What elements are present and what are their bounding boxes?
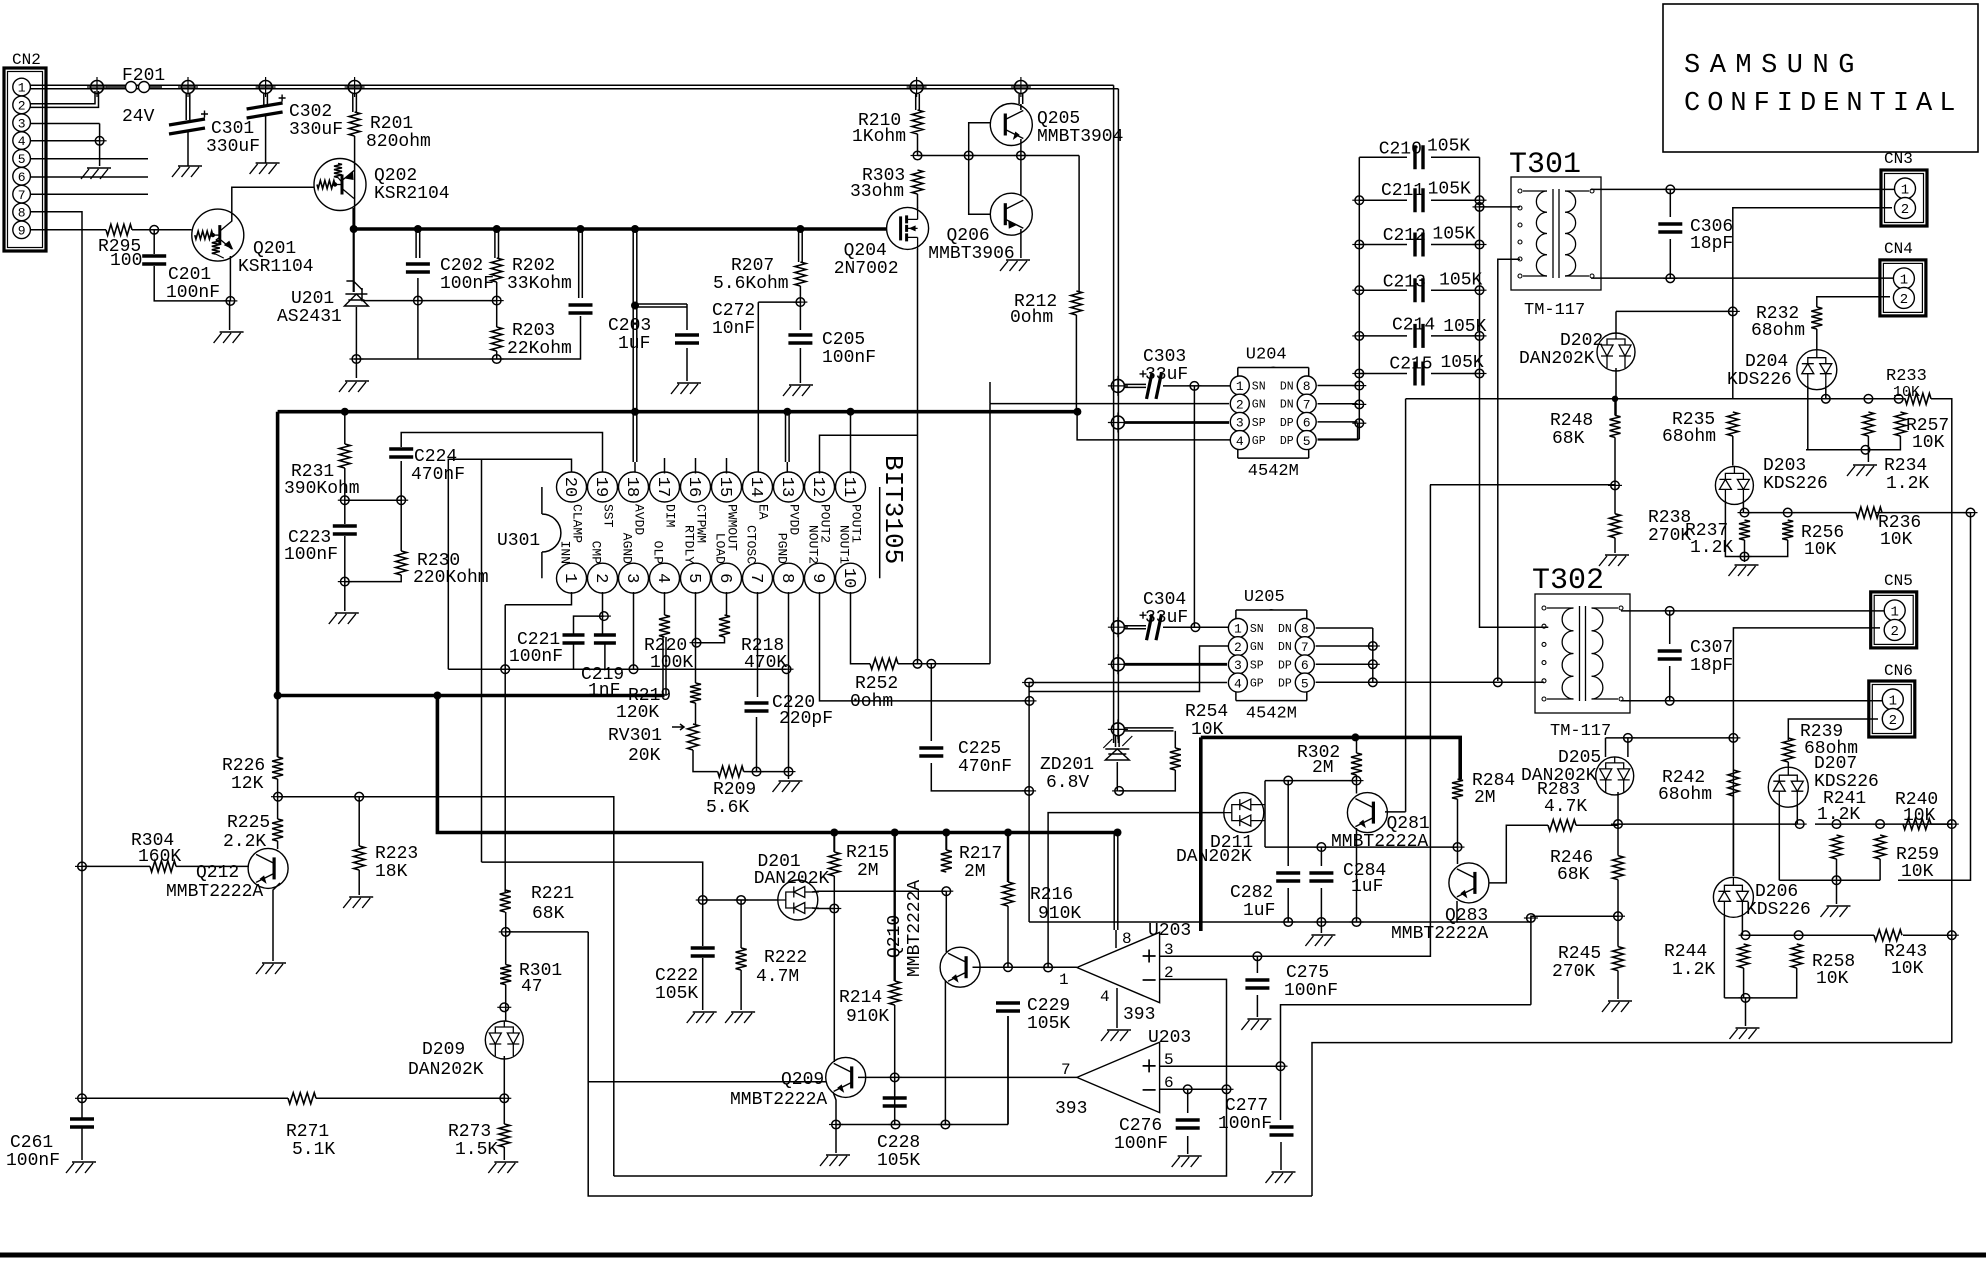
svg-text:68ohm: 68ohm [1662,427,1716,447]
ground R244 [1730,1028,1760,1039]
capacitor C215 [1415,362,1423,386]
svg-text:C307: C307 [1690,638,1733,658]
dual diode D201 DAN202K [778,880,818,920]
svg-text:Q202: Q202 [374,166,417,186]
junction ZD201 anode [1112,790,1126,792]
wire T302 sec bottom [1621,700,1896,702]
junction ladder U204 p6 [1352,422,1366,424]
wire R202 leads [495,231,499,359]
junction R304 left [75,865,89,867]
svg-text:100nF: 100nF [509,647,563,667]
svg-text:SP: SP [1252,417,1266,430]
junction R244 bottom [1739,997,1753,999]
junction ladder R C213 [1473,289,1487,291]
svg-text:7: 7 [1303,397,1311,412]
svg-text:68K: 68K [1557,865,1590,885]
dot rail 229 d [577,225,585,233]
junction C284 top [1314,846,1328,848]
dot R302 top [1351,733,1359,741]
ic U301 body [542,487,880,578]
svg-text:100nF: 100nF [1114,1134,1168,1154]
dual diode D202 DAN202K [1597,333,1635,371]
svg-text:C229: C229 [1027,996,1070,1016]
transistor Q281 MMBT2222A [1347,793,1387,833]
wire R239 bottom [1787,762,1789,767]
svg-text:R225: R225 [227,813,270,833]
wire AVDD vertical [633,231,637,473]
svg-text:1: 1 [1059,971,1069,989]
resistor R214 [889,981,900,1005]
svg-text:4: 4 [18,134,26,149]
resistor R302 [1351,753,1362,775]
wire R219-RV301 [695,703,697,724]
ground R238 [1599,555,1629,566]
svg-text:18pF: 18pF [1690,656,1733,676]
wire Q205 base link [969,123,991,215]
wire Q283 base [1489,825,1548,883]
transistor Q283 MMBT2222A [1449,863,1489,903]
capacitor C307 [1658,651,1682,659]
junction D207 right anode [1793,823,1807,825]
wire CN6 R239 [1787,738,1789,740]
svg-text:OLP: OLP [651,541,666,565]
wire y935 line [1746,934,1952,936]
capacitor C304 33uF [1147,614,1162,640]
wire agnd rail [448,605,786,740]
wire U203b pin5 line [1160,1065,1281,1067]
junction R303 top [911,155,925,157]
junction R248 R238 [1608,484,1622,486]
svg-text:68K: 68K [1552,429,1585,449]
svg-text:17: 17 [653,477,672,497]
fuse F201 [106,86,162,88]
dot rail 229 f [796,225,804,233]
wire y485 line [1430,484,1615,486]
junction ladder R C215 [1473,373,1487,375]
junction bus pin3 U205 [1108,654,1128,674]
junction R241 bottom [1830,879,1844,881]
resistor R220 [659,615,670,637]
transistor Q210 MMBT2222A [940,947,980,987]
svg-text:CN4: CN4 [1884,240,1913,258]
svg-text:C276: C276 [1119,1116,1162,1136]
wire R303 to Q204 [917,194,919,208]
svg-text:D203: D203 [1763,456,1806,476]
svg-text:NOUT1: NOUT1 [837,525,852,564]
wire CN5 pin2 line [1733,628,1880,876]
capacitor C205 [788,335,812,343]
junction R259 top [1873,823,1887,825]
svg-text:DAN202K: DAN202K [408,1060,484,1080]
svg-text:19: 19 [591,477,610,497]
junction ladder R C212 [1473,244,1487,246]
svg-text:5: 5 [684,573,703,583]
junction C306 bottom [1663,277,1677,279]
svg-text:10K: 10K [1804,540,1837,560]
junction C304 right [1188,626,1202,628]
connector CN3 [1881,170,1927,226]
wire R257 R234 bottom [1806,436,1900,462]
svg-text:U204: U204 [1246,346,1287,365]
svg-text:R223: R223 [375,844,418,864]
svg-text:C272: C272 [712,301,755,321]
wire pin5 up route [1281,918,1531,1066]
wire pin16 stub [695,458,697,474]
wire ZD201 anode [1116,762,1118,791]
junction R214 base line [888,1076,902,1078]
junction R202 R203 [490,300,504,302]
svg-text:D205: D205 [1558,748,1601,768]
svg-text:8: 8 [18,206,26,221]
ground R245 [1602,1001,1632,1012]
wire R233 right [1931,399,1952,1043]
transistor Q205 MMBT3904 [990,104,1032,146]
svg-text:U301: U301 [497,531,540,551]
svg-text:33ohm: 33ohm [850,182,904,202]
svg-text:R248: R248 [1550,411,1593,431]
ground R222 [725,1012,755,1023]
junction pin1 agnd [498,668,512,670]
svg-text:2: 2 [1890,624,1898,640]
wire frame step [1312,1043,1952,1196]
wire D205 top line [1606,738,1734,757]
svg-text:6.8V: 6.8V [1046,773,1089,793]
svg-text:CN6: CN6 [1884,662,1913,680]
wire R240 right [1931,823,1952,825]
svg-text:1: 1 [1901,183,1909,199]
svg-text:0ohm: 0ohm [1010,308,1053,328]
wire R214 thick [894,834,896,981]
wire C304 leads [1124,626,1229,629]
junction R237 bottom [1738,556,1752,558]
svg-text:1: 1 [1234,622,1242,637]
ground R273 [488,1162,518,1173]
wire R210 leads [916,94,920,156]
svg-text:20K: 20K [628,746,661,766]
svg-text:Q283: Q283 [1445,906,1488,926]
svg-text:R203: R203 [512,321,555,341]
svg-text:C301: C301 [211,119,254,139]
svg-text:CONFIDENTIAL: CONFIDENTIAL [1684,89,1962,119]
svg-text:DP: DP [1280,417,1294,430]
svg-text:ZD201: ZD201 [1040,755,1094,775]
junction pin8 agnd [780,668,794,670]
svg-text:DAN202K: DAN202K [754,869,830,889]
svg-text:6: 6 [715,573,734,583]
junction right edge a [1945,823,1959,825]
wire pin3 net [633,592,635,669]
wire CN6 pin2 line [1788,719,1878,738]
wire 24V bus [97,85,1118,89]
resistor R217 [941,850,952,872]
junction Q201 emitter [223,300,237,302]
svg-text:910K: 910K [846,1007,889,1027]
svg-text:2: 2 [591,573,610,583]
wire R302 top lead [1356,739,1358,753]
junction T301 link [1491,681,1505,683]
capacitor C214 [1415,324,1423,348]
resistor R212 [1071,291,1082,315]
svg-text:R252: R252 [855,674,898,694]
svg-text:D204: D204 [1745,352,1788,372]
svg-text:MMBT3906: MMBT3906 [928,244,1014,264]
wire R215 bottom [833,876,835,909]
wire Q210 base [973,966,1009,968]
wire R248 vert [1405,399,1407,812]
dot rail832 b [891,829,899,837]
samsung confidential box [1663,4,1978,152]
svg-text:C210: C210 [1379,139,1422,159]
junction C228 bot [889,1124,903,1126]
wire R254 stub [1124,728,1175,748]
svg-text:DP: DP [1278,659,1292,672]
wire R222 top [703,900,778,948]
dot rail411 R231 [341,408,349,416]
dot rail832 c [942,829,950,837]
capacitor C225 [919,748,943,756]
svg-text:4542M: 4542M [1246,705,1297,724]
svg-text:R216: R216 [1030,885,1073,905]
svg-text:KDS226: KDS226 [1763,474,1828,494]
wire U204 pin5 wire [1318,423,1358,440]
svg-text:DAN202K: DAN202K [1521,766,1597,786]
junction C307 top [1663,610,1677,612]
dot R248 top [1612,396,1618,402]
resistor R235 [1727,412,1738,436]
wire R214 bottom [894,1005,896,1095]
wire U205 pin2 route [1030,646,1229,692]
wire R231-C224 link [345,461,401,582]
wire C302 lead [264,94,268,163]
svg-text:BIT3105: BIT3105 [878,455,908,564]
connector CN5 [1871,592,1917,648]
svg-text:U203: U203 [1148,921,1191,941]
wire U201 anode [355,307,357,378]
junction Q209 em [829,1124,843,1126]
wire Q281 base [1385,811,1406,813]
wire U204 pin8 wire [1318,385,1358,387]
ic U301 pins bottom row [557,563,866,593]
svg-text:1Kohm: 1Kohm [852,127,906,147]
svg-text:GP: GP [1250,678,1264,691]
svg-text:10: 10 [839,568,858,588]
wire C203 lead thick [579,231,583,298]
svg-text:PGND: PGND [775,533,790,564]
capacitor C284 [1309,873,1333,881]
svg-text:PVDD: PVDD [787,504,802,535]
wire C215 row [1359,373,1479,375]
svg-text:RTDLY: RTDLY [682,525,697,564]
svg-text:100nF: 100nF [1284,981,1338,1001]
connector CN6 [1869,681,1915,737]
wire sense line 398 [1406,398,1905,400]
resistor R233 [1905,393,1931,404]
resistor R240 [1903,819,1931,830]
svg-text:7: 7 [18,188,26,203]
svg-text:910K: 910K [1038,904,1081,924]
svg-text:LOAD: LOAD [713,533,728,564]
dot R212 bottom [1073,408,1081,416]
wire T301 left pin5 down [1498,259,1520,681]
svg-text:2: 2 [1900,292,1908,308]
svg-text:R217: R217 [959,844,1002,864]
svg-text:12K: 12K [231,774,264,794]
svg-text:8: 8 [1301,622,1309,637]
wire Q202 collector thick [352,208,355,229]
svg-text:AVDD: AVDD [632,504,647,535]
wire U204 pin3 thick [1124,421,1229,424]
wire ZD201 top [1116,736,1120,747]
svg-text:Q206: Q206 [947,226,990,246]
ground CN2 pins [81,168,111,179]
junction U205 p5 net [1366,681,1380,683]
svg-text:R226: R226 [222,756,265,776]
svg-text:4: 4 [653,573,672,583]
wire cap ladder left rail [1318,157,1360,439]
ground R223 [343,897,373,908]
resistor R223 [354,846,365,870]
junction R233 left [1892,398,1906,400]
wire pin1 net [505,592,571,605]
junction bus x97 [87,77,107,97]
wire D206 anodes [1724,914,1742,998]
svg-text:2: 2 [1901,202,1909,218]
wire U203a pin3 line [1160,485,1431,957]
svg-text:TM-117: TM-117 [1524,301,1585,320]
wire R273 gnd [503,1147,505,1160]
svg-text:18: 18 [622,477,641,497]
wire y847 line [1265,847,1458,864]
junction C282 bottom [1281,921,1295,923]
junction ladder L C212 [1352,244,1366,246]
svg-text:1.5K: 1.5K [455,1140,498,1160]
svg-text:DN: DN [1280,381,1294,394]
svg-text:2M: 2M [1474,788,1496,808]
ground C275 [1241,1019,1271,1030]
svg-text:160K: 160K [138,847,181,867]
svg-text:22Kohm: 22Kohm [507,339,572,359]
junction R284 bottom [1451,846,1465,848]
wire y512 line [1745,512,1971,514]
resistor R232 [1811,307,1822,329]
junction D204 right anode [1819,398,1833,400]
svg-text:10K: 10K [1816,969,1849,989]
junction C225 line [1022,790,1036,792]
wire C225 top [930,664,932,741]
junction pin5 riser [1524,917,1538,919]
svg-text:R202: R202 [512,256,555,276]
svg-text:1.2K: 1.2K [1690,538,1733,558]
resistor R245 [1613,947,1624,971]
junction ladder T301 feed [1473,206,1487,208]
svg-text:1: 1 [1890,604,1898,620]
svg-text:105K: 105K [1428,180,1471,200]
svg-text:C275: C275 [1286,963,1329,983]
junction AVDD C272 [631,302,639,310]
resistor R304 [150,861,176,872]
svg-text:DAN202K: DAN202K [1519,349,1595,369]
junction Q205 emitter [1014,155,1028,157]
border bottom [0,1253,1986,1258]
resistor R254 [1170,748,1181,770]
svg-text:1uF: 1uF [1351,877,1383,897]
junction U205 p7 [1366,645,1380,647]
svg-text:D207: D207 [1814,754,1857,774]
ground D203 [1729,565,1759,576]
wire CN3 pin2 line [1733,208,1892,399]
junction ladder L C215 [1352,373,1366,375]
resistor R201 [349,112,360,136]
svg-text:Q281: Q281 [1387,814,1430,834]
wire AVDD rail 411 [278,410,1078,414]
resistor R234 par [1895,412,1906,436]
ic U204 4542M [1230,346,1316,482]
junction ladder U204 p8 [1352,385,1366,387]
wire U203a pin8 [1115,930,1117,948]
junction ladder L C213 [1352,289,1366,291]
wire D202 anode [1615,368,1617,415]
svg-text:R273: R273 [448,1122,491,1142]
wire R244 R258 bottom [1724,968,1796,1026]
svg-text:105K: 105K [1027,1014,1070,1034]
ic U301 pin names [558,504,864,564]
dual diode D204 KDS226 [1797,350,1837,390]
wire D202 top line [1616,311,1733,334]
svg-text:2: 2 [1236,397,1244,412]
svg-text:330uF: 330uF [289,120,343,140]
junction C307 bottom [1663,700,1677,702]
resistor R248 [1610,415,1621,437]
junction D206 right anode [1739,934,1753,936]
junction pin4 [93,140,107,142]
capacitor C210 [1415,145,1423,169]
resistor R259 [1875,835,1886,859]
junction R258 top [1792,934,1806,936]
svg-text:4.7K: 4.7K [1544,797,1587,817]
svg-text:20: 20 [560,477,579,497]
resistor R207 [795,262,806,286]
wire U205 pin4 line [1029,682,1227,684]
junction Q204 source line [911,663,925,665]
ground C222 [687,1012,717,1023]
capacitor C211 [1415,188,1423,212]
svg-text:R245: R245 [1558,944,1601,964]
svg-text:15: 15 [715,477,734,497]
wire Q204 source [917,249,919,664]
wire R221 net [505,740,1312,1196]
svg-text:C282: C282 [1230,883,1273,903]
junction U201 anode [349,358,363,360]
ground R234 [1847,465,1877,476]
svg-text:3: 3 [1236,416,1244,431]
junction R207 bottom [793,301,807,303]
wire C277 lead [1280,1066,1283,1170]
wire R216 thick [1007,834,1009,882]
wire R212 leads [1076,315,1239,440]
capacitor C272 [675,335,699,343]
capacitor C276 [1176,1120,1200,1128]
svg-text:C211: C211 [1381,181,1424,201]
junction ladder R C214 [1473,335,1487,337]
wire CN2 pin3-4 to ground [30,124,100,167]
wire CN2 pin1 bus stub [30,85,97,89]
svg-text:R207: R207 [731,256,774,276]
junction R241 top [1830,823,1844,825]
svg-text:105K: 105K [1427,137,1470,157]
svg-text:C201: C201 [168,265,211,285]
dot rail695 left [274,692,282,700]
svg-text:2.2K: 2.2K [223,832,266,852]
